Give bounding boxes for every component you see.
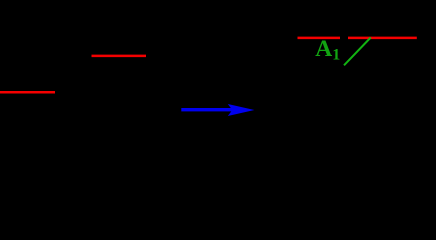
svg-text:1: 1 [332,47,340,64]
energy level E1 (lower left red line) [0,91,55,94]
blue arrow head [228,104,255,116]
label A1 (green) [315,36,340,64]
energy level E3 left segment (upper right red line) [298,37,341,40]
energy level E3 right segment (upper right red line) [348,37,417,40]
pointer line from label A1 to level E3 (green) [344,38,371,66]
blue arrow shaft [181,108,236,111]
svg-text:A: A [315,36,332,62]
energy level E2 (middle red line) [92,55,147,58]
